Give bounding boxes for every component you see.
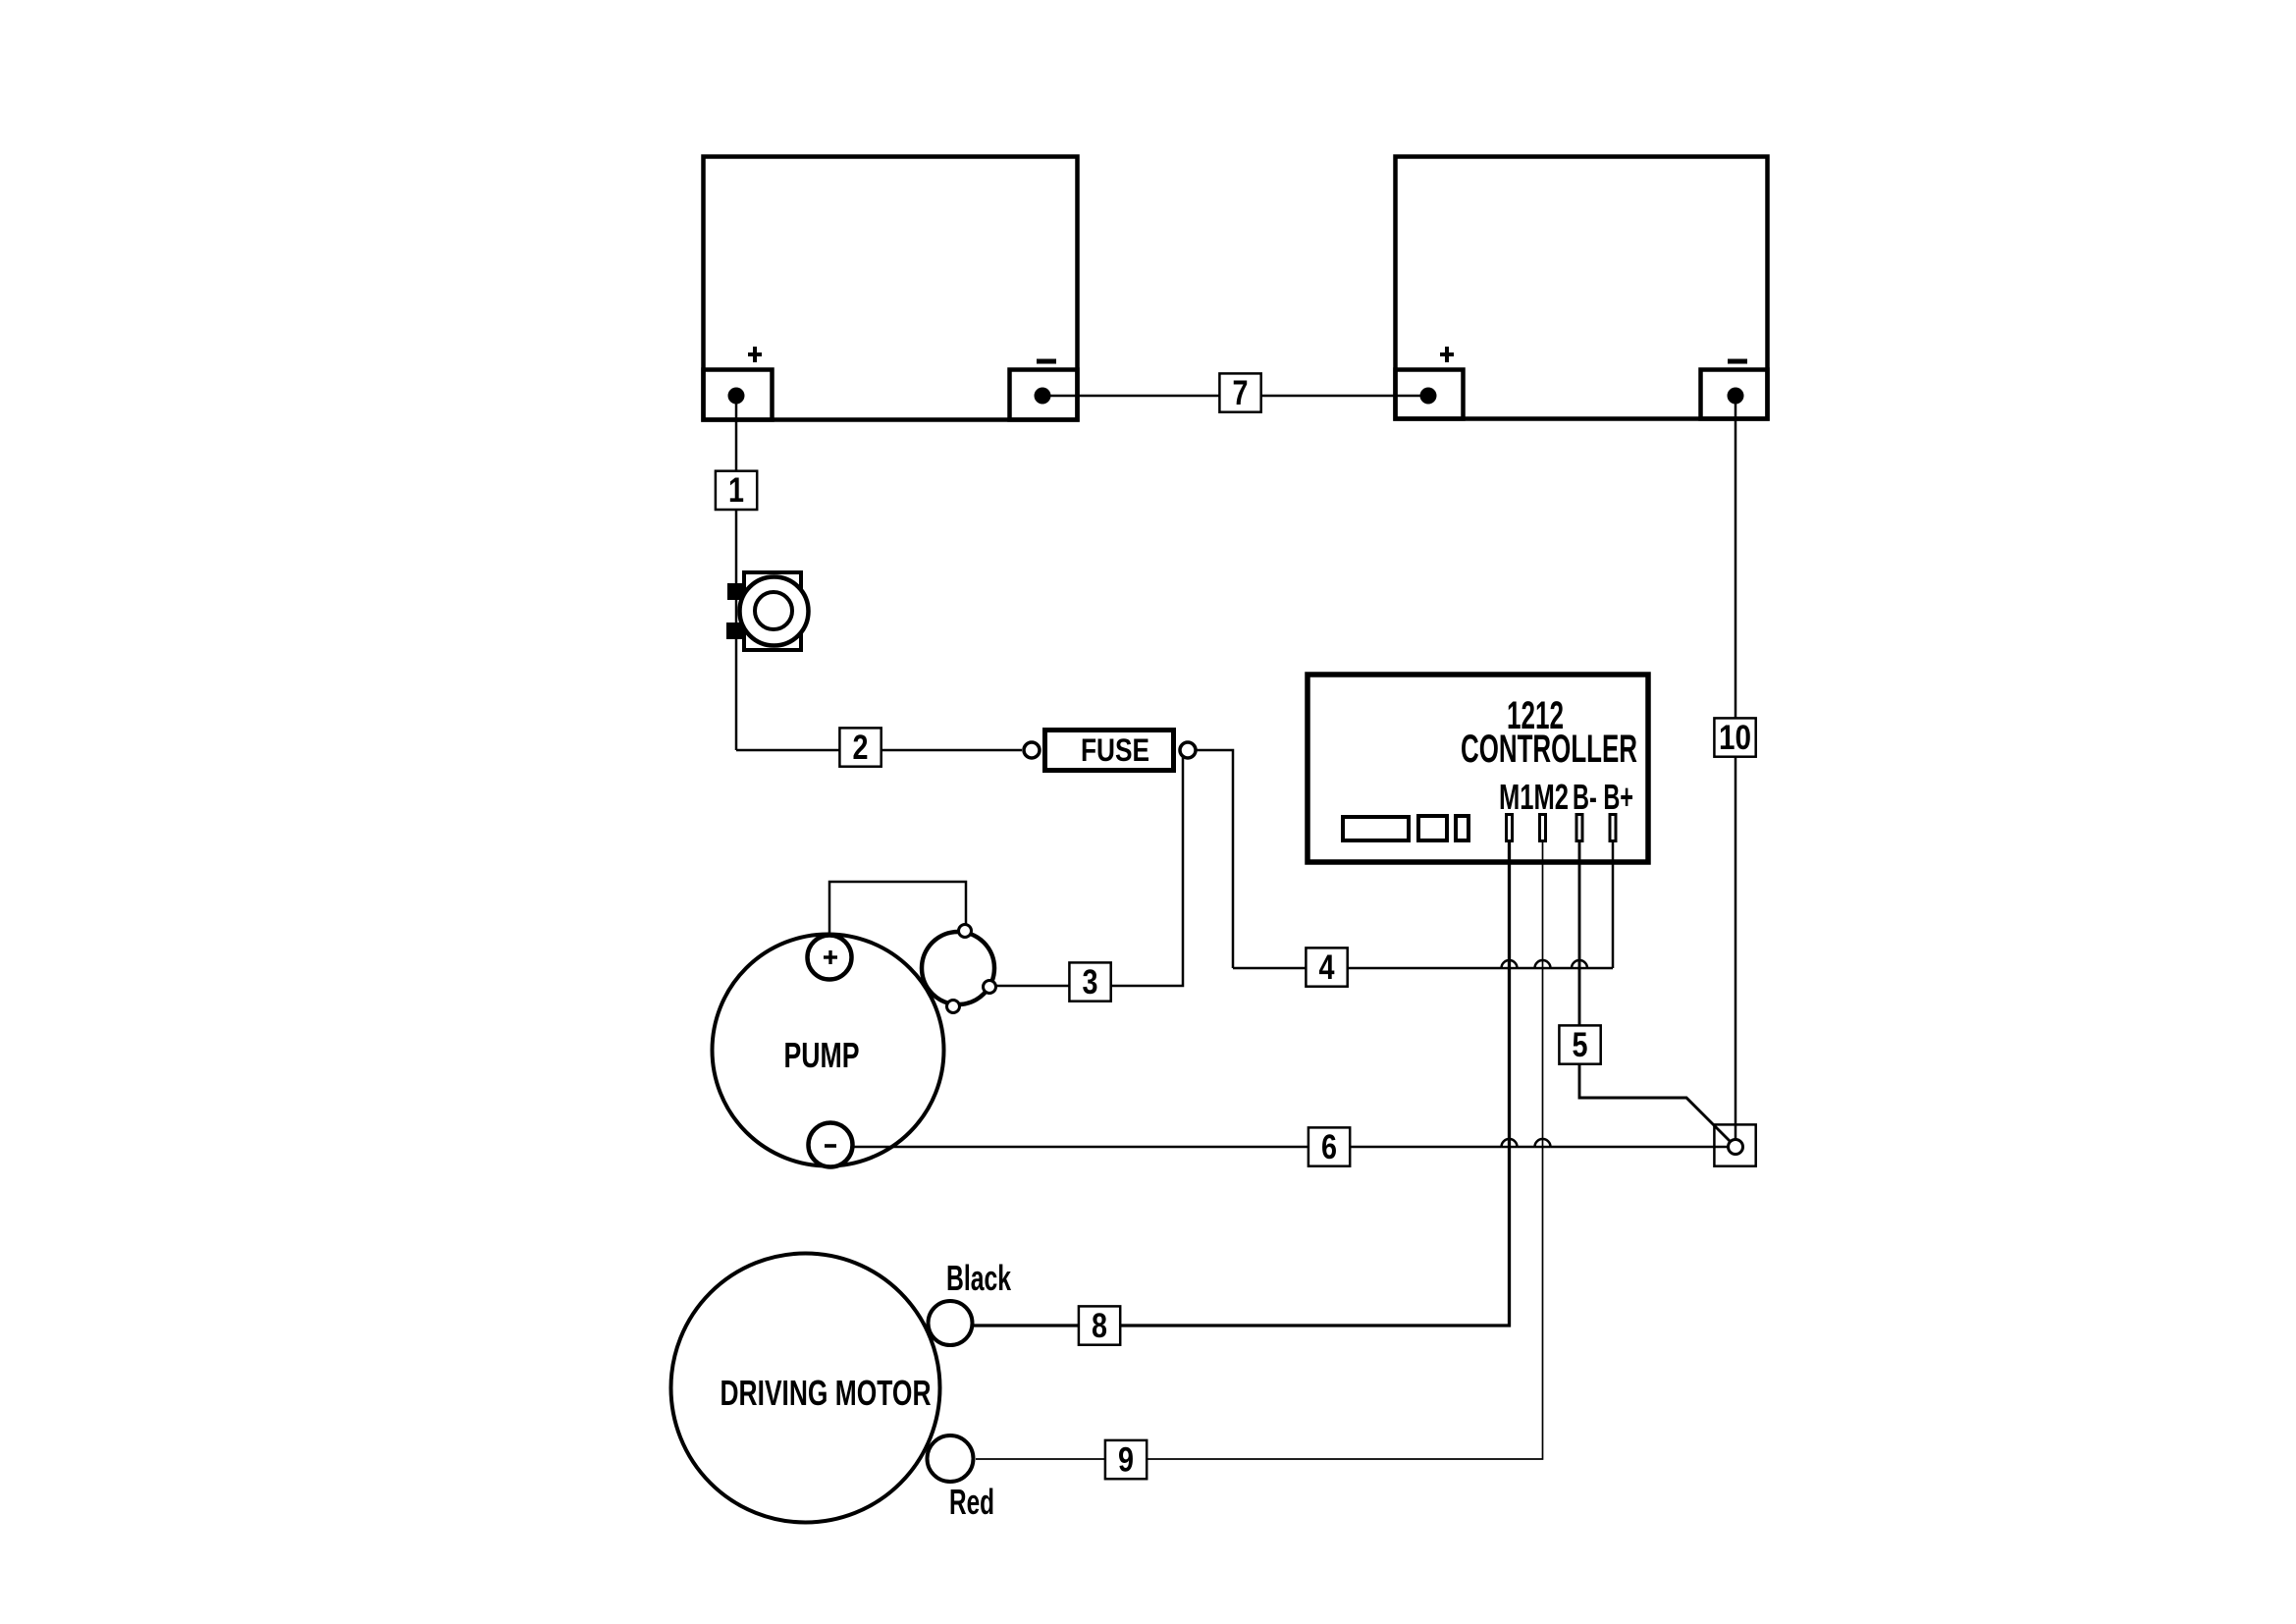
svg-text:PUMP: PUMP xyxy=(784,1035,860,1075)
controller internal rect 2 xyxy=(1418,816,1447,840)
label 8 box xyxy=(1079,1306,1120,1344)
svg-text:8: 8 xyxy=(1092,1307,1107,1345)
label 9 box xyxy=(1105,1440,1147,1479)
controller internal rect 3 xyxy=(1456,816,1468,840)
motor black terminal xyxy=(929,1301,973,1345)
battery BT2 negative terminal dot xyxy=(1728,388,1744,405)
label 3 box xyxy=(1069,962,1110,1001)
wire 4 horizontal to controller B+ xyxy=(1233,967,1613,970)
controller pin M1 xyxy=(1507,815,1513,841)
wire B+ controller down to wire 4 xyxy=(1612,842,1615,968)
battery BT1 plus sign xyxy=(748,347,762,362)
pump positive terminal xyxy=(808,936,852,980)
label 1 box xyxy=(716,471,757,510)
svg-text:7: 7 xyxy=(1233,374,1249,412)
label 5 box xyxy=(1559,1025,1600,1063)
label 10 box xyxy=(1714,718,1755,756)
junction node box xyxy=(1714,1124,1755,1165)
svg-text:4: 4 xyxy=(1319,948,1335,987)
label 7 box xyxy=(1219,373,1260,411)
wire B- controller to junction via label 5 xyxy=(1579,842,1732,1143)
battery BT1 positive terminal dot xyxy=(728,388,745,405)
motor red label xyxy=(949,1482,994,1522)
controller U1 box xyxy=(1308,675,1648,862)
svg-text:B- B+: B- B+ xyxy=(1573,777,1633,817)
driving motor M body xyxy=(671,1254,940,1523)
svg-text:CONTROLLER: CONTROLLER xyxy=(1461,728,1637,771)
wire 2 key switch to fuse xyxy=(736,749,1022,752)
controller pin B- xyxy=(1576,815,1582,841)
controller terminal labels B- B+ xyxy=(1573,777,1633,817)
fuse F1 xyxy=(1024,731,1196,771)
battery BT2 body xyxy=(1396,157,1768,419)
battery BT1 body xyxy=(704,157,1078,420)
wire 10 BT2- down to junction xyxy=(1735,396,1737,1139)
wire 4 hop over M1 xyxy=(1502,960,1518,969)
wire 3 contactor to fuse xyxy=(996,756,1183,986)
battery BT2 plus sign xyxy=(1440,347,1454,362)
svg-text:1: 1 xyxy=(728,471,744,510)
label 2 box xyxy=(839,728,881,766)
wire M2 controller to motor red xyxy=(976,842,1543,1459)
battery BT1 negative terminal dot xyxy=(1035,388,1051,405)
controller terminal labels M1 M2 xyxy=(1499,777,1569,817)
wire 4 hop over M2 xyxy=(1535,960,1551,969)
wire 1 BT1+ down to key switch xyxy=(735,396,738,750)
svg-text:9: 9 xyxy=(1118,1441,1134,1480)
controller pin B+ xyxy=(1610,815,1616,841)
wire 6 hop over M2 xyxy=(1535,1139,1551,1148)
wire fuse to corner node (to wire 4) xyxy=(1197,750,1233,968)
battery BT1 positive terminal box xyxy=(704,370,773,420)
junction node circle xyxy=(1729,1140,1743,1155)
wire 6 pump- to junction xyxy=(852,1146,1729,1149)
svg-text:Black: Black xyxy=(946,1258,1012,1298)
wire 4 hop over B- xyxy=(1572,960,1587,969)
battery BT2 positive terminal box xyxy=(1396,370,1464,419)
svg-text:DRIVING MOTOR: DRIVING MOTOR xyxy=(721,1373,932,1413)
pump negative terminal xyxy=(809,1123,853,1167)
controller pin M2 xyxy=(1540,815,1546,841)
svg-text:M1M2: M1M2 xyxy=(1499,777,1569,817)
motor black label xyxy=(946,1258,1012,1298)
label 4 box xyxy=(1306,947,1347,986)
battery BT1 minus sign xyxy=(1037,359,1056,364)
svg-text:6: 6 xyxy=(1321,1128,1337,1166)
battery BT1 negative terminal box xyxy=(1010,370,1078,420)
svg-text:FUSE: FUSE xyxy=(1081,732,1149,768)
battery BT2 minus sign xyxy=(1728,359,1747,364)
motor red terminal xyxy=(928,1435,974,1482)
svg-text:3: 3 xyxy=(1083,963,1098,1001)
svg-text:2: 2 xyxy=(853,729,869,767)
svg-text:Red: Red xyxy=(949,1482,994,1522)
key switch S1 xyxy=(726,572,809,650)
controller internal rect 1 xyxy=(1343,817,1409,840)
pump contactor K1 xyxy=(922,932,994,1004)
battery BT2 negative terminal box xyxy=(1701,370,1768,419)
svg-text:10: 10 xyxy=(1719,719,1751,757)
pump P1 body xyxy=(713,935,944,1166)
wire 7 BT1- to BT2+ xyxy=(1042,395,1428,398)
label 6 box xyxy=(1308,1127,1350,1165)
wire pump+ to contactor xyxy=(829,882,966,935)
wire M1 controller to motor black xyxy=(974,842,1510,1326)
battery BT2 positive terminal dot xyxy=(1420,388,1437,405)
wire 6 hop over M1 xyxy=(1502,1139,1518,1148)
svg-text:5: 5 xyxy=(1573,1026,1588,1064)
